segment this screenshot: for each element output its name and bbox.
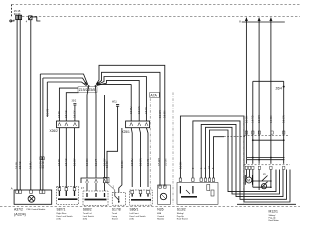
svg-text:Z5/5: Z5/5: [88, 88, 95, 92]
wire to S88/2 pin3: [104, 95, 106, 178]
arrow V1 head: [245, 17, 248, 21]
wire dashed bus second: [22, 15, 300, 17]
svg-text:0.5 BK: 0.5 BK: [58, 158, 61, 166]
svg-text:0.5 BK: 0.5 BK: [58, 110, 61, 118]
svg-text:S88/2: S88/2: [83, 208, 92, 212]
svg-text:Module: Module: [157, 219, 165, 221]
wire motor feed: [249, 170, 251, 177]
wire splice left to X26/2 pin1: [59, 88, 78, 121]
wire terminal to X26/2 pin3: [74, 105, 76, 121]
connector row pins y132: [245, 131, 285, 134]
svg-text:Door Lock Switch: Door Lock Switch: [57, 215, 74, 218]
svg-text:M12/1: M12/1: [269, 210, 279, 214]
connector X25/1: [126, 121, 150, 128]
pin A37/2-3: [30, 190, 33, 193]
component S87/1 box: [57, 187, 79, 205]
svg-text:Pop-Up: Pop-Up: [177, 216, 185, 218]
wire S88/2 pin drops: [87, 183, 105, 191]
wire bracket from relay: [32, 17, 40, 21]
junction dot: [252, 180, 254, 182]
wire X25/1 to S86/1 pin3: [146, 128, 148, 187]
wire stub Z6/4: [283, 81, 285, 86]
separator line bottom: [237, 203, 296, 205]
svg-text:A: A: [11, 187, 13, 191]
wire R5 splice to X25/1: [130, 84, 132, 121]
wire internal v2: [270, 170, 272, 188]
svg-text:0.5 RD: 0.5 RD: [19, 161, 22, 169]
svg-text:1.5 BN: 1.5 BN: [270, 115, 273, 123]
svg-text:M: M: [247, 178, 250, 182]
wire R4 splice to X25/1: [97, 80, 139, 121]
fuse F2: [19, 15, 22, 19]
svg-text:30 30: 30 30: [14, 12, 21, 16]
wire W6 stub: [46, 82, 48, 117]
svg-text:30/2: 30/2: [72, 100, 77, 103]
svg-text:(US): (US): [57, 219, 62, 221]
pins S87/1: [58, 188, 61, 191]
pin A37/2-5: [42, 190, 45, 193]
wire internal v: [258, 170, 260, 191]
pins S88/2 top: [86, 179, 106, 182]
arrow V2 head: [258, 17, 261, 21]
wire row y187: [253, 186, 271, 188]
svg-text:0.5 GN: 0.5 GN: [283, 115, 286, 123]
component S13/2 box: [177, 183, 218, 205]
svg-text:0.5 WH: 0.5 WH: [258, 115, 261, 123]
connector inline left pair: [40, 157, 42, 160]
wire top arrow V3: [270, 18, 272, 164]
svg-text:Lock Switch: Lock Switch: [83, 215, 95, 218]
motor M a: [246, 177, 252, 183]
svg-text:Control: Control: [157, 215, 164, 218]
switch contacts S86/1: [131, 199, 151, 201]
junction dot: [270, 157, 272, 159]
switch contacts S88/2: [85, 199, 107, 201]
wire branch Z6/4 horizontal: [253, 80, 284, 82]
svg-text:0.5 BU: 0.5 BU: [131, 158, 134, 166]
junction dot: [252, 139, 254, 141]
svg-text:PSE Control Module: PSE Control Module: [27, 208, 47, 211]
harness boundary dashed right: [172, 92, 174, 205]
svg-text:0.5 BU: 0.5 BU: [130, 106, 133, 114]
component S17/8 box: [112, 193, 125, 206]
wire X25 left to S17/8 pin2: [119, 128, 122, 193]
svg-text:1.5 RD: 1.5 RD: [252, 115, 255, 123]
component S88/2 box: [83, 191, 108, 206]
pin X25/1-1: [130, 123, 133, 127]
wire top arrow V2: [258, 18, 260, 164]
pin A37/2-2: [19, 190, 22, 193]
svg-text:(A32/4): (A32/4): [14, 212, 26, 216]
junction dot: [283, 139, 285, 141]
label Z19/2 Z5/5 box: [78, 87, 97, 93]
svg-text:0.5 RD: 0.5 RD: [65, 158, 68, 166]
pin X25/1-3: [145, 123, 148, 127]
junction dot: [252, 157, 254, 159]
svg-text:Sliding/: Sliding/: [177, 213, 184, 215]
wire L1 to splice: [40, 74, 88, 85]
wire W4 nested feed right: [42, 78, 44, 190]
component S86/1 box: [130, 190, 153, 205]
svg-text:W11: W11: [112, 101, 117, 104]
wire double bar row: [247, 158, 285, 160]
spiral wire P4: [206, 127, 280, 194]
wire splice to S88/2 pin1: [87, 87, 89, 178]
switch contacts S13/2: [181, 196, 197, 198]
pin X25/1-2: [138, 123, 141, 127]
svg-text:0.5 GN: 0.5 GN: [138, 106, 141, 114]
wire splice to S88/2 pin2: [95, 87, 98, 178]
wire L3 to splice: [47, 82, 86, 86]
wire R2 splice to N26 inner: [96, 72, 160, 186]
svg-text:0.5 GY: 0.5 GY: [74, 158, 77, 166]
splice dot Z5/5: [95, 85, 97, 87]
spiral wire P6 dashed link: [214, 137, 225, 178]
wire M12 internal: [252, 170, 254, 188]
pin A37/2-1: [16, 190, 19, 193]
wire W1 fuse1 to A37/2: [16, 20, 18, 190]
motor M b: [261, 184, 266, 189]
terminal t2: [116, 105, 119, 107]
svg-text:ATA: ATA: [157, 212, 161, 215]
svg-text:0.5 YE: 0.5 YE: [147, 158, 150, 166]
terminal circle 30: [10, 20, 12, 22]
symbol N26: [160, 193, 166, 199]
svg-text:Z6/4: Z6/4: [276, 87, 283, 91]
connector inline S17/8: [104, 177, 110, 183]
wire terminal jog to S17/8: [107, 106, 118, 177]
splice dot Z19/2: [88, 85, 90, 87]
pins N26: [159, 185, 162, 188]
wire W5 nested feed left: [39, 74, 41, 190]
svg-text:S13/2: S13/2: [177, 208, 186, 212]
svg-text:S17/8: S17/8: [112, 208, 121, 212]
junction dot: [270, 180, 272, 182]
svg-text:0.5 BN: 0.5 BN: [164, 110, 167, 118]
wire X26/2 to S87/1 pin2: [65, 128, 67, 188]
svg-text:(US): (US): [130, 219, 135, 221]
svg-text:Switch: Switch: [112, 218, 119, 221]
wire dashed bus top: [12, 4, 301, 6]
arrow into splice Z5/5: [96, 82, 99, 85]
svg-text:Roof Motor: Roof Motor: [269, 219, 280, 222]
symbol pump A37/2: [28, 195, 35, 202]
svg-text:0.5 YE: 0.5 YE: [145, 106, 148, 114]
svg-text:Trunk Lid: Trunk Lid: [83, 212, 92, 215]
wire X26/2 to S87/1 pin3: [74, 128, 76, 188]
svg-text:A7A: A7A: [150, 94, 157, 98]
connector X26/2: [57, 121, 79, 128]
rotated wire color labels: [16, 106, 286, 169]
svg-text:Door Lock Switch: Door Lock Switch: [130, 215, 147, 218]
svg-text:Lamp: Lamp: [112, 216, 118, 218]
svg-text:Z19/2: Z19/2: [79, 88, 88, 92]
switch S17/8: [115, 193, 119, 204]
pins S86/1: [131, 191, 134, 194]
svg-text:S87/1: S87/1: [57, 208, 66, 212]
pin A37/2-4: [40, 190, 43, 193]
svg-text:N26: N26: [157, 208, 163, 212]
wire M12 internal left: [245, 170, 247, 178]
junction dot: [270, 186, 272, 188]
fuse F1: [16, 15, 19, 19]
harness boundary dashed left: [149, 92, 151, 205]
svg-text:Left Front: Left Front: [130, 212, 139, 215]
svg-text:0.5 YE: 0.5 YE: [42, 161, 45, 169]
pin X26/2-1: [58, 123, 61, 127]
wire to fuse: [12, 20, 14, 21]
switch contact x1: [262, 176, 268, 188]
svg-text:(US): (US): [83, 219, 88, 221]
svg-text:X25/1: X25/1: [122, 130, 131, 134]
connector pins M12/1 top: [245, 166, 285, 169]
wire dashed link inner: [224, 136, 246, 138]
junction dot: [258, 159, 260, 161]
resistor S13/2: [207, 185, 210, 191]
svg-text:0.5 GY: 0.5 GY: [74, 110, 77, 118]
pin X26/2-2: [65, 123, 68, 127]
wire splice left to X26/2 pin2: [66, 93, 78, 121]
spiral wire P5: [210, 130, 277, 192]
splice dot Z6/4: [283, 86, 285, 88]
svg-text:0.5 YE: 0.5 YE: [46, 108, 49, 116]
wire W3 relay to A37/2: [30, 20, 32, 190]
spiral wire P3: [201, 124, 283, 196]
dashed separator full width: [0, 206, 300, 208]
connector housing S88/2: [81, 178, 107, 183]
wire drop V5: [283, 87, 285, 163]
terminal 30/2: [73, 104, 76, 106]
wire X25/1 to S86/1 pin2: [139, 128, 140, 187]
wire R5 horiz: [97, 83, 132, 85]
wire link: [253, 139, 284, 141]
wire R3 splice to X25/1: [97, 77, 147, 122]
wire X26/2 to S87/1 pin1: [58, 128, 60, 188]
svg-text:Right Rear: Right Rear: [57, 212, 67, 215]
svg-text:0.5 WH: 0.5 WH: [158, 158, 161, 166]
label A7A box: [150, 92, 159, 97]
wire dashed row y164.5: [244, 164, 290, 166]
svg-text:Roof Switch: Roof Switch: [177, 218, 189, 221]
svg-text:0.5 BK: 0.5 BK: [179, 161, 182, 169]
component A37/2 box: [14, 190, 52, 204]
wire top arrow V1: [245, 18, 247, 164]
bracket motor: [245, 175, 252, 185]
spiral wire P1 S13/2 to M12/1: [180, 116, 290, 202]
component N26 box: [158, 185, 171, 204]
wire bus bar right: [242, 21, 285, 23]
svg-text:0.5 RD: 0.5 RD: [65, 110, 68, 118]
svg-text:0.5 BK: 0.5 BK: [245, 115, 248, 123]
switch contacts S87/1: [58, 198, 78, 200]
svg-text:0.5 GN: 0.5 GN: [139, 158, 142, 166]
wire X25/1 to S86/1 pin1: [131, 128, 132, 187]
svg-text:0.5 BN: 0.5 BN: [164, 158, 167, 166]
pins S13/2: [179, 178, 215, 181]
arrow into splice Z19/2: [84, 82, 87, 85]
svg-text:S86/1: S86/1: [130, 208, 139, 212]
wire dashed left riser: [11, 5, 13, 17]
harness dashed M12 left: [243, 117, 245, 204]
svg-text:0.5 WH: 0.5 WH: [159, 110, 162, 118]
arrow V3 head: [269, 17, 272, 21]
svg-text:A37/2: A37/2: [14, 208, 23, 212]
wire row y181: [253, 180, 271, 182]
wire W2 fuse2 to A37/2: [19, 20, 21, 190]
svg-text:0.5 BK: 0.5 BK: [106, 160, 109, 168]
wire dashed row y135: [244, 135, 288, 137]
wire R1 splice to N26 outer: [96, 65, 165, 186]
wire drop V4: [252, 81, 254, 164]
spiral wire P2: [193, 121, 287, 199]
pin X26/2-3: [74, 123, 77, 127]
svg-text:0.5 BU: 0.5 BU: [29, 161, 32, 169]
wire L2 to splice: [43, 78, 87, 85]
svg-text:0.5 BN: 0.5 BN: [121, 160, 124, 168]
relay K1: [29, 16, 32, 20]
svg-text:0.5 VT: 0.5 VT: [95, 158, 98, 166]
svg-text:0.5 BN: 0.5 BN: [86, 158, 89, 166]
svg-text:X26/2: X26/2: [50, 129, 59, 133]
